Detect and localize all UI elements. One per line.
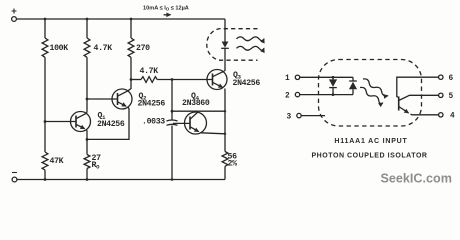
wire Q2 collector up to node <box>128 80 131 91</box>
svg-text:2: 2 <box>285 93 290 101</box>
node column Q4 emitter <box>224 133 226 135</box>
svg-text:RO: RO <box>92 161 101 170</box>
wire Q2 emitter down and left <box>87 107 129 139</box>
resistor 4.7K (upper, x=87) <box>84 38 112 57</box>
wire 56 bottom to rail <box>224 166 226 179</box>
arrow current direction <box>164 14 171 16</box>
wire 4.7K horizontal to Q3 base <box>157 79 212 81</box>
wire cap bottom to rail <box>171 126 173 180</box>
node bottom rail cap <box>171 178 174 181</box>
wire 100K top <box>44 19 46 38</box>
svg-text:4.7K: 4.7K <box>94 44 113 53</box>
wire 270 node to 4.7K horizontal <box>131 79 141 81</box>
wire Q1 base node to 47K <box>44 122 46 153</box>
light arrow coupler 1 <box>362 77 389 97</box>
capacitor C .0033 <box>142 118 178 127</box>
svg-text:.0033: .0033 <box>142 118 165 127</box>
wire 100K bottom to Q1 base node <box>44 57 46 121</box>
node top rail 4.7K <box>86 18 89 21</box>
node Q1 base junction <box>44 120 47 123</box>
wire Q4 collector to right column <box>172 110 225 112</box>
transistor Q3 2N4256 <box>207 70 260 90</box>
svg-text:3: 3 <box>287 113 292 121</box>
resistor 100K <box>42 38 68 57</box>
wire LED cathode to Q3 collector <box>224 48 226 71</box>
node Q1/Q2 emitter junction <box>86 138 89 141</box>
svg-text:5: 5 <box>449 93 454 101</box>
wire 4.7K top <box>86 19 88 38</box>
node top rail 100K <box>44 18 47 21</box>
wire cap tap down <box>171 80 173 112</box>
wire Q3 emitter down column <box>224 89 226 152</box>
package dashed LED (emitter side) <box>207 29 258 61</box>
svg-text:SeekIC.com: SeekIC.com <box>381 172 452 186</box>
transistor Q4 2N3860 <box>182 92 210 134</box>
resistor 27 Ro <box>84 154 101 170</box>
resistor 270 <box>128 38 150 57</box>
svg-text:10mA ≤ IO ≤ 12µA: 10mA ≤ IO ≤ 12µA <box>143 5 189 11</box>
pin 2 <box>285 92 333 100</box>
wire 4.7K bottom to Q2 base node <box>86 57 88 99</box>
svg-text:100K: 100K <box>50 44 69 53</box>
node column Q4 collector <box>224 110 226 112</box>
node bottom rail 47K <box>44 178 47 181</box>
light arrow emitter 1 <box>237 37 265 41</box>
svg-text:1: 1 <box>285 75 290 83</box>
svg-text:PHOTON COUPLED ISOLATOR: PHOTON COUPLED ISOLATOR <box>311 153 427 160</box>
wire 47K bottom <box>44 170 46 179</box>
node top rail 270 <box>130 18 133 21</box>
pin 5 <box>439 93 454 101</box>
diode input LED A (anode up) <box>329 77 337 94</box>
wire top rail <box>17 18 226 20</box>
wire Q1 emitter down <box>86 130 88 140</box>
wire Q2 base <box>87 98 118 100</box>
node capacitor top tap <box>171 78 174 81</box>
svg-text:270: 270 <box>136 44 150 53</box>
terminal + (positive input) <box>12 9 17 22</box>
wire cap top lead <box>171 111 173 120</box>
diode LED drive (emitter diode) <box>221 42 229 49</box>
transistor Q2 2N4256 <box>112 89 165 109</box>
svg-text:4: 4 <box>450 113 455 121</box>
svg-text:2%: 2% <box>228 160 238 169</box>
wire emitter node to 27 <box>86 139 88 154</box>
pin 1 <box>285 75 333 83</box>
resistor 56 2% <box>222 152 237 169</box>
svg-text:47K: 47K <box>50 157 64 166</box>
svg-text:2N4256: 2N4256 <box>233 79 261 88</box>
diode input LED B (anode down) <box>349 77 357 94</box>
svg-text:4.7K: 4.7K <box>140 67 159 76</box>
svg-text:2N4256: 2N4256 <box>138 100 166 109</box>
wire 270 top <box>130 19 132 38</box>
wire Q4 emitter to column <box>201 133 225 134</box>
wire LED pair bottom rail <box>333 94 353 96</box>
pin 3 <box>287 113 326 121</box>
wire LED pair top rail <box>333 76 353 78</box>
resistor 4.7K (horizontal) <box>140 67 159 82</box>
pin 4 <box>439 113 455 121</box>
package dashed H11AA1 <box>319 60 422 127</box>
terminal - (negative input) <box>12 173 17 182</box>
resistor 47K <box>42 152 64 170</box>
node Q4 collector tap <box>171 110 174 113</box>
wire Q1 base <box>45 121 76 123</box>
wire Q1 collector up <box>86 99 88 113</box>
svg-text:2N4256: 2N4256 <box>97 120 125 129</box>
wire bottom rail <box>17 179 225 181</box>
pin 6 <box>439 75 454 83</box>
node bottom rail 27 <box>86 178 89 181</box>
wire 270 bottom <box>130 57 132 79</box>
svg-text:H11AA1 AC INPUT: H11AA1 AC INPUT <box>334 138 407 145</box>
phototransistor detector <box>397 77 439 115</box>
wire 27 bottom <box>86 169 88 180</box>
node LED A top <box>332 76 335 79</box>
node base-drive (junction 270 / Q2 collector / 4.7K wire) <box>130 78 133 81</box>
light arrow emitter 2 <box>237 46 265 50</box>
transistor Q1 2N4256 <box>71 112 125 132</box>
node LED A bottom <box>332 93 335 96</box>
svg-text:6: 6 <box>449 75 454 83</box>
light arrow coupler 2 <box>359 86 384 105</box>
node Q2 base / Q1 collector junction <box>86 98 89 101</box>
wire right column top (rail to LED) <box>224 19 226 42</box>
svg-text:2N3860: 2N3860 <box>182 99 210 108</box>
wire Q4 base <box>173 122 190 124</box>
